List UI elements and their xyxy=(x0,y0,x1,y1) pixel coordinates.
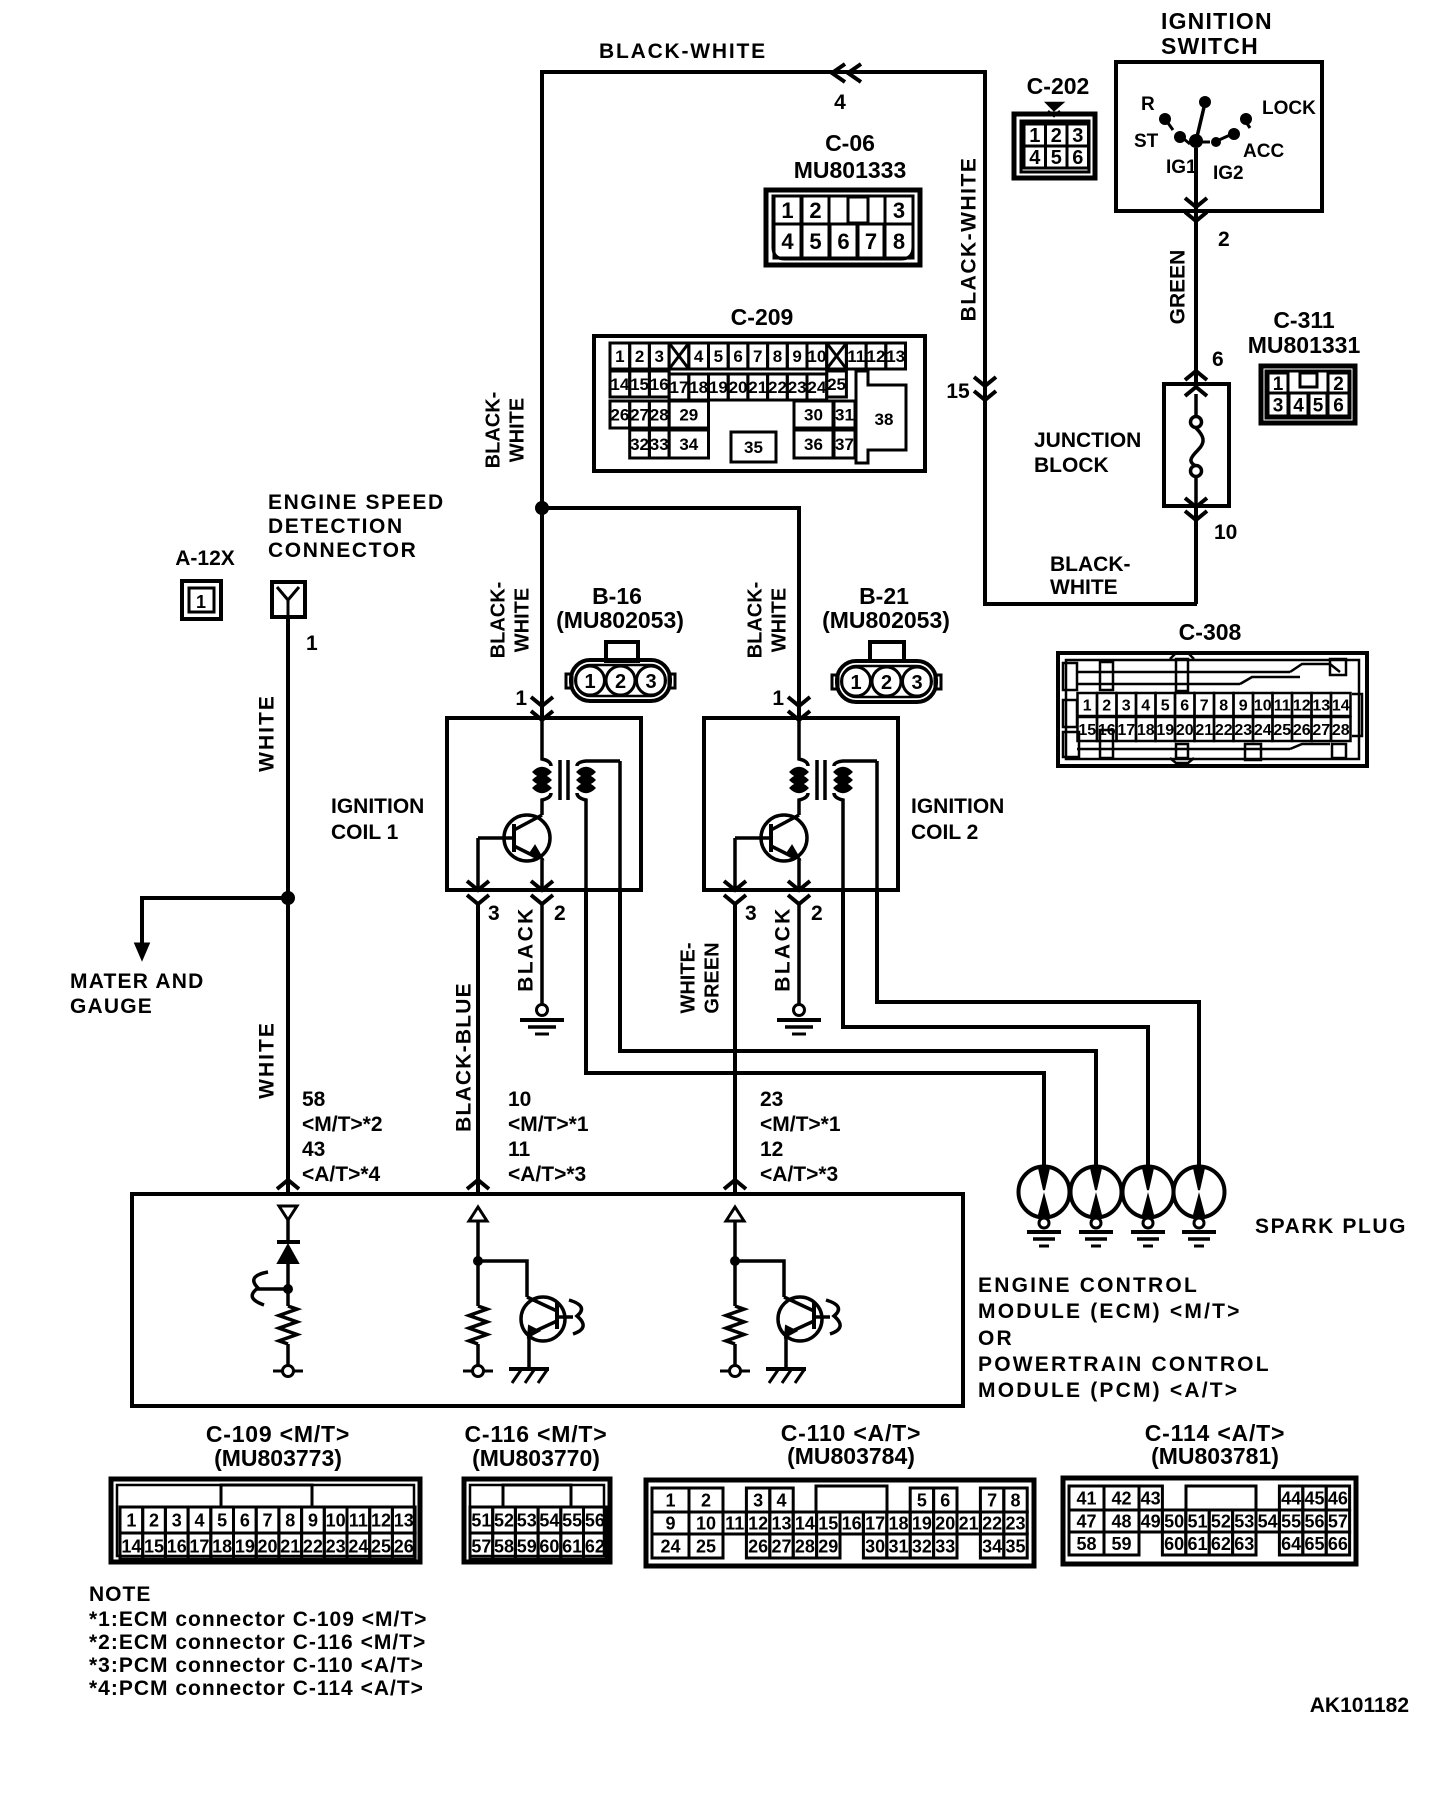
svg-text:38: 38 xyxy=(875,410,894,429)
svg-text:44: 44 xyxy=(1281,1488,1301,1508)
svg-text:MODULE (ECM) <M/T>: MODULE (ECM) <M/T> xyxy=(978,1300,1242,1323)
svg-text:DETECTION: DETECTION xyxy=(268,515,404,538)
svg-text:54: 54 xyxy=(539,1510,559,1530)
svg-text:MU801333: MU801333 xyxy=(794,157,907,183)
connector C-308 lower latch details xyxy=(1077,748,1290,751)
svg-text:26: 26 xyxy=(394,1536,414,1556)
ground for coil pin 2 xyxy=(794,1005,805,1016)
svg-text:4: 4 xyxy=(834,91,846,114)
svg-text:14: 14 xyxy=(610,375,629,394)
svg-text:20: 20 xyxy=(1176,722,1194,739)
svg-text:30: 30 xyxy=(804,406,823,425)
connector C-209 cell 38 xyxy=(856,371,906,463)
ECM driver branch terminal xyxy=(730,1366,741,1377)
svg-text:GREEN: GREEN xyxy=(1167,250,1190,325)
svg-text:(MU803781): (MU803781) xyxy=(1151,1443,1279,1469)
ECM driver branch input triangle xyxy=(726,1207,744,1221)
svg-text:37: 37 xyxy=(835,435,854,454)
svg-text:35: 35 xyxy=(1005,1536,1025,1556)
svg-text:1: 1 xyxy=(615,347,624,366)
svg-text:66: 66 xyxy=(1328,1534,1348,1554)
svg-text:36: 36 xyxy=(804,435,823,454)
wire BLACK-WHITE to ignition coil 2 xyxy=(542,508,799,718)
connector C-308 latch details xyxy=(1077,671,1290,674)
ignition coil box xyxy=(704,718,898,890)
svg-text:60: 60 xyxy=(539,1536,559,1556)
svg-text:<A/T>*3: <A/T>*3 xyxy=(760,1163,838,1186)
svg-text:13: 13 xyxy=(886,347,905,366)
svg-text:22: 22 xyxy=(982,1513,1002,1533)
svg-text:1: 1 xyxy=(584,671,595,693)
svg-text:64: 64 xyxy=(1281,1534,1301,1554)
svg-text:20: 20 xyxy=(935,1513,955,1533)
wire main BLACK-WHITE feed: junction block to ignition coils xyxy=(542,72,1197,604)
wire junction block to horizontal BLACK-WHITE xyxy=(1194,506,1198,604)
svg-text:9: 9 xyxy=(308,1510,318,1530)
svg-text:52: 52 xyxy=(494,1510,514,1530)
svg-text:35: 35 xyxy=(744,438,763,457)
svg-text:3: 3 xyxy=(745,902,757,925)
svg-text:2: 2 xyxy=(615,671,626,693)
svg-text:*1:ECM connector C-109 <M/T>: *1:ECM connector C-109 <M/T> xyxy=(89,1608,427,1631)
svg-text:1: 1 xyxy=(665,1490,675,1510)
svg-text:6: 6 xyxy=(1212,348,1224,371)
svg-text:ST: ST xyxy=(1134,131,1159,152)
svg-text:4: 4 xyxy=(1293,395,1304,416)
svg-text:WHITE: WHITE xyxy=(769,588,791,652)
svg-text:18: 18 xyxy=(888,1513,908,1533)
ECM driver branch terminal xyxy=(473,1366,484,1377)
svg-text:1: 1 xyxy=(850,672,861,694)
svg-text:POWERTRAIN CONTROL: POWERTRAIN CONTROL xyxy=(978,1353,1271,1376)
svg-text:IGNITION: IGNITION xyxy=(331,795,424,818)
svg-text:AK101182: AK101182 xyxy=(1310,1694,1409,1717)
svg-text:(MU803773): (MU803773) xyxy=(214,1445,342,1471)
svg-text:17: 17 xyxy=(865,1513,885,1533)
svg-text:12: 12 xyxy=(1293,697,1311,714)
svg-text:6: 6 xyxy=(1180,697,1189,714)
ignition switch box xyxy=(1116,62,1322,211)
svg-text:4: 4 xyxy=(781,229,794,254)
svg-text:10: 10 xyxy=(1214,521,1237,544)
wire junction dot BLACK-WHITE splits to both coils xyxy=(535,501,549,515)
svg-text:*4:PCM connector C-114 <A/T>: *4:PCM connector C-114 <A/T> xyxy=(89,1677,424,1700)
svg-text:18: 18 xyxy=(212,1536,232,1556)
svg-text:10: 10 xyxy=(807,347,826,366)
transformer core xyxy=(815,760,819,800)
svg-text:21: 21 xyxy=(748,378,767,397)
ECM driver branch resistor xyxy=(469,1306,487,1344)
svg-text:25: 25 xyxy=(1273,722,1291,739)
svg-text:33: 33 xyxy=(650,435,669,454)
svg-text:24: 24 xyxy=(348,1536,368,1556)
svg-text:23: 23 xyxy=(326,1536,346,1556)
svg-text:15: 15 xyxy=(630,375,649,394)
svg-text:56: 56 xyxy=(585,1510,605,1530)
svg-text:A-12X: A-12X xyxy=(175,547,235,570)
ECM driver branch input triangle xyxy=(469,1207,487,1221)
svg-text:C-311: C-311 xyxy=(1273,307,1335,333)
coil exit arrows pins 3 and 2 xyxy=(467,881,489,890)
svg-text:6: 6 xyxy=(940,1490,950,1510)
svg-text:10: 10 xyxy=(1254,697,1272,714)
svg-text:5: 5 xyxy=(1051,147,1062,169)
svg-text:16: 16 xyxy=(650,375,669,394)
svg-text:12: 12 xyxy=(748,1513,768,1533)
svg-text:2: 2 xyxy=(701,1490,711,1510)
svg-text:8: 8 xyxy=(773,347,782,366)
svg-text:6: 6 xyxy=(240,1510,250,1530)
svg-text:61: 61 xyxy=(562,1536,582,1556)
wire arrow into ECM pin 58/43 xyxy=(277,1180,299,1189)
svg-text:34: 34 xyxy=(982,1536,1002,1556)
transformer primary winding xyxy=(799,718,808,766)
svg-text:14: 14 xyxy=(1332,697,1350,714)
svg-text:3: 3 xyxy=(753,1490,763,1510)
svg-text:10: 10 xyxy=(508,1088,531,1111)
svg-text:21: 21 xyxy=(1195,722,1213,739)
svg-text:1: 1 xyxy=(515,687,527,710)
svg-text:58: 58 xyxy=(302,1088,326,1111)
svg-text:WHITE: WHITE xyxy=(1050,576,1118,599)
engine speed detection connector symbol xyxy=(272,582,305,617)
svg-text:1: 1 xyxy=(126,1510,136,1530)
svg-text:1: 1 xyxy=(1029,125,1040,147)
svg-text:25: 25 xyxy=(827,375,846,394)
svg-text:IG1: IG1 xyxy=(1166,157,1197,178)
svg-text:2: 2 xyxy=(149,1510,159,1530)
ECM driver ground xyxy=(509,1367,549,1371)
svg-text:11: 11 xyxy=(847,347,865,366)
svg-text:16: 16 xyxy=(842,1513,862,1533)
svg-text:50: 50 xyxy=(1164,1511,1184,1531)
svg-text:32: 32 xyxy=(630,435,649,454)
svg-text:27: 27 xyxy=(630,406,649,425)
svg-text:5: 5 xyxy=(1313,395,1324,416)
wire base to pin 3 xyxy=(478,836,514,840)
power transistor in coil xyxy=(504,815,550,861)
svg-text:18: 18 xyxy=(1137,722,1155,739)
coil exit arrows pins 3 and 2 xyxy=(724,881,746,890)
wire arrow down pin 15 on vertical feed xyxy=(974,377,996,386)
svg-text:*3:PCM connector C-110 <A/T>: *3:PCM connector C-110 <A/T> xyxy=(89,1654,424,1677)
svg-text:1: 1 xyxy=(781,198,793,223)
svg-text:BLACK-: BLACK- xyxy=(745,582,767,659)
wire coil1 secondary B to spark plug 1 xyxy=(586,890,1044,1166)
ECM driver transistor base squiggle xyxy=(814,1315,830,1319)
svg-text:NOTE: NOTE xyxy=(89,1583,151,1606)
svg-text:19: 19 xyxy=(912,1513,932,1533)
svg-text:47: 47 xyxy=(1076,1511,1096,1531)
svg-text:IG2: IG2 xyxy=(1213,163,1244,184)
svg-text:7: 7 xyxy=(263,1510,273,1530)
svg-text:19: 19 xyxy=(235,1536,255,1556)
svg-text:23: 23 xyxy=(1005,1513,1025,1533)
wire coil1 secondary A to spark plug 2 xyxy=(620,890,1096,1166)
svg-text:24: 24 xyxy=(1254,722,1272,739)
svg-text:15: 15 xyxy=(946,380,970,403)
ECM driver transistor base squiggle xyxy=(557,1315,573,1319)
svg-text:8: 8 xyxy=(893,229,905,254)
svg-text:3: 3 xyxy=(893,198,905,223)
svg-text:OR: OR xyxy=(978,1327,1014,1350)
svg-text:26: 26 xyxy=(610,406,629,425)
svg-text:13: 13 xyxy=(394,1510,414,1530)
svg-text:26: 26 xyxy=(1293,722,1311,739)
svg-text:9: 9 xyxy=(1239,697,1248,714)
svg-text:4: 4 xyxy=(1029,147,1041,169)
svg-text:2: 2 xyxy=(1102,697,1111,714)
svg-text:C-109 <M/T>: C-109 <M/T> xyxy=(206,1421,350,1447)
svg-text:19: 19 xyxy=(1156,722,1174,739)
svg-text:30: 30 xyxy=(865,1536,885,1556)
svg-text:31: 31 xyxy=(835,406,854,425)
svg-text:1: 1 xyxy=(1083,697,1092,714)
svg-text:<A/T>*4: <A/T>*4 xyxy=(302,1163,381,1186)
svg-text:7: 7 xyxy=(865,229,877,254)
svg-text:29: 29 xyxy=(679,406,698,425)
wire branch to meter and gauge xyxy=(142,898,288,944)
svg-text:WHITE-: WHITE- xyxy=(678,942,700,1013)
ECM driver transistor xyxy=(735,1261,784,1297)
svg-text:ENGINE CONTROL: ENGINE CONTROL xyxy=(978,1274,1199,1297)
ignition switch rotary contacts xyxy=(1189,134,1203,148)
svg-text:33: 33 xyxy=(935,1536,955,1556)
wire pin2 to ground xyxy=(540,904,544,1005)
svg-text:21: 21 xyxy=(959,1513,979,1533)
svg-text:4: 4 xyxy=(1141,697,1150,714)
wire base to pin 3 xyxy=(735,836,771,840)
svg-text:32: 32 xyxy=(912,1536,932,1556)
svg-text:65: 65 xyxy=(1304,1534,1324,1554)
svg-text:43: 43 xyxy=(1141,1488,1161,1508)
svg-text:57: 57 xyxy=(471,1536,491,1556)
svg-text:C-116 <M/T>: C-116 <M/T> xyxy=(464,1421,607,1447)
svg-text:4: 4 xyxy=(194,1510,204,1530)
svg-text:7: 7 xyxy=(1200,697,1209,714)
svg-text:21: 21 xyxy=(280,1536,300,1556)
svg-text:WHITE: WHITE xyxy=(256,694,279,772)
svg-text:15: 15 xyxy=(144,1536,164,1556)
svg-text:5: 5 xyxy=(714,347,723,366)
svg-text:3: 3 xyxy=(1072,125,1083,147)
svg-text:2: 2 xyxy=(635,347,644,366)
svg-text:20: 20 xyxy=(729,378,748,397)
svg-text:CONNECTOR: CONNECTOR xyxy=(268,539,417,562)
svg-text:49: 49 xyxy=(1141,1511,1161,1531)
svg-text:61: 61 xyxy=(1187,1534,1207,1554)
svg-text:9: 9 xyxy=(665,1513,675,1533)
svg-text:22: 22 xyxy=(768,378,787,397)
svg-text:3: 3 xyxy=(1273,395,1284,416)
svg-text:5: 5 xyxy=(217,1510,227,1530)
svg-text:WHITE: WHITE xyxy=(256,1021,279,1099)
svg-text:31: 31 xyxy=(888,1536,908,1556)
svg-text:19: 19 xyxy=(709,378,728,397)
svg-text:11: 11 xyxy=(725,1513,744,1533)
svg-text:60: 60 xyxy=(1164,1534,1184,1554)
wire coil2 secondary B to spark plug 3 xyxy=(843,890,1148,1166)
svg-text:26: 26 xyxy=(748,1536,768,1556)
svg-text:5: 5 xyxy=(1161,697,1170,714)
svg-text:ACC: ACC xyxy=(1243,141,1284,162)
svg-text:MATER AND: MATER AND xyxy=(70,970,204,993)
transformer secondary winding xyxy=(577,761,620,766)
svg-text:53: 53 xyxy=(1234,1511,1254,1531)
wire arrow left on top feed xyxy=(832,64,845,82)
wire coil2 secondary A to spark plug 4 xyxy=(877,890,1199,1166)
ECM driver transistor xyxy=(478,1261,527,1297)
wire pin2 to ground xyxy=(797,904,801,1005)
svg-text:9: 9 xyxy=(792,347,801,366)
svg-text:15: 15 xyxy=(1078,722,1096,739)
svg-text:COIL 2: COIL 2 xyxy=(911,821,978,844)
svg-text:BLACK-BLUE: BLACK-BLUE xyxy=(453,982,476,1132)
svg-text:1: 1 xyxy=(306,632,318,655)
svg-text:12: 12 xyxy=(371,1510,391,1530)
svg-text:SWITCH: SWITCH xyxy=(1161,33,1259,59)
svg-text:BLACK-WHITE: BLACK-WHITE xyxy=(599,40,767,63)
svg-text:25: 25 xyxy=(696,1536,716,1556)
svg-text:3: 3 xyxy=(488,902,500,925)
svg-text:WHITE: WHITE xyxy=(507,398,529,462)
svg-text:62: 62 xyxy=(585,1536,605,1556)
svg-text:34: 34 xyxy=(679,435,698,454)
svg-text:MODULE (PCM) <A/T>: MODULE (PCM) <A/T> xyxy=(978,1379,1239,1402)
svg-text:10: 10 xyxy=(696,1513,716,1533)
svg-text:27: 27 xyxy=(771,1536,791,1556)
junction block box xyxy=(1164,384,1229,506)
connector C-308 pin rows xyxy=(1078,693,1098,716)
svg-text:3: 3 xyxy=(172,1510,182,1530)
svg-text:12: 12 xyxy=(866,347,885,366)
ECM diode branch resistor xyxy=(279,1306,297,1344)
svg-text:57: 57 xyxy=(1328,1511,1348,1531)
svg-text:JUNCTION: JUNCTION xyxy=(1034,429,1141,452)
svg-text:7: 7 xyxy=(987,1490,997,1510)
svg-text:23: 23 xyxy=(788,378,807,397)
svg-text:24: 24 xyxy=(660,1536,680,1556)
ground for coil pin 2 xyxy=(537,1005,548,1016)
svg-text:53: 53 xyxy=(517,1510,537,1530)
svg-text:2: 2 xyxy=(811,902,823,925)
svg-text:20: 20 xyxy=(258,1536,278,1556)
svg-text:24: 24 xyxy=(807,378,826,397)
svg-text:MU801331: MU801331 xyxy=(1248,332,1361,358)
svg-text:3: 3 xyxy=(655,347,664,366)
svg-text:6: 6 xyxy=(733,347,742,366)
svg-text:23: 23 xyxy=(1234,722,1252,739)
svg-text:46: 46 xyxy=(1328,1488,1348,1508)
svg-text:2: 2 xyxy=(554,902,566,925)
svg-text:6: 6 xyxy=(1072,147,1083,169)
svg-text:2: 2 xyxy=(1218,228,1230,251)
svg-text:3: 3 xyxy=(645,671,656,693)
svg-text:56: 56 xyxy=(1304,1511,1324,1531)
svg-text:29: 29 xyxy=(818,1536,838,1556)
svg-text:<M/T>*2: <M/T>*2 xyxy=(302,1113,383,1136)
svg-text:17: 17 xyxy=(1117,722,1135,739)
svg-text:5: 5 xyxy=(809,229,821,254)
svg-text:22: 22 xyxy=(1215,722,1233,739)
svg-text:59: 59 xyxy=(1111,1534,1131,1554)
svg-text:59: 59 xyxy=(517,1536,537,1556)
svg-text:4: 4 xyxy=(776,1490,786,1510)
svg-text:WHITE: WHITE xyxy=(512,588,534,652)
svg-text:GREEN: GREEN xyxy=(702,942,724,1013)
svg-text:<M/T>*1: <M/T>*1 xyxy=(760,1113,841,1136)
wire WHITE-GREEN coil2 base to ECM xyxy=(733,904,737,1194)
svg-text:23: 23 xyxy=(760,1088,783,1111)
svg-text:62: 62 xyxy=(1211,1534,1231,1554)
svg-text:14: 14 xyxy=(121,1536,141,1556)
svg-text:8: 8 xyxy=(285,1510,295,1530)
svg-text:COIL 1: COIL 1 xyxy=(331,821,399,844)
ECM driver branch resistor xyxy=(726,1306,744,1344)
junction block exit arrows xyxy=(1185,498,1207,507)
svg-text:42: 42 xyxy=(1111,1488,1131,1508)
svg-text:58: 58 xyxy=(1076,1534,1096,1554)
spark plug xyxy=(1019,1167,1070,1218)
svg-text:(MU803784): (MU803784) xyxy=(787,1443,915,1469)
svg-text:54: 54 xyxy=(1258,1511,1278,1531)
wire BLACK-WHITE down to ignition coil 1 xyxy=(540,508,544,718)
wire secondary terminal A xyxy=(618,761,622,890)
svg-text:(MU802053): (MU802053) xyxy=(556,607,684,633)
svg-text:4: 4 xyxy=(694,347,704,366)
svg-text:C-202: C-202 xyxy=(1027,73,1090,99)
svg-text:13: 13 xyxy=(771,1513,791,1533)
svg-text:8: 8 xyxy=(1010,1490,1020,1510)
svg-text:11: 11 xyxy=(1274,697,1291,714)
svg-text:1: 1 xyxy=(196,592,206,612)
transformer primary winding xyxy=(542,718,551,766)
svg-text:C-209: C-209 xyxy=(731,304,794,330)
svg-text:45: 45 xyxy=(1304,1488,1324,1508)
svg-text:1: 1 xyxy=(772,687,784,710)
engine control module box xyxy=(132,1194,963,1406)
svg-text:8: 8 xyxy=(1219,697,1228,714)
wire ignition switch IG1 down to junction block xyxy=(1194,148,1198,384)
svg-text:11: 11 xyxy=(508,1138,531,1161)
svg-text:ENGINE SPEED: ENGINE SPEED xyxy=(268,491,445,514)
spark plug xyxy=(1174,1167,1225,1218)
svg-text:6: 6 xyxy=(837,229,849,254)
ECM diode branch terminal xyxy=(283,1366,294,1377)
svg-text:52: 52 xyxy=(1211,1511,1231,1531)
svg-text:BLACK-: BLACK- xyxy=(483,392,505,469)
transformer core xyxy=(558,760,562,800)
svg-text:13: 13 xyxy=(1312,697,1330,714)
ECM driver ground xyxy=(766,1367,806,1371)
svg-text:IGNITION: IGNITION xyxy=(911,795,1004,818)
svg-text:2: 2 xyxy=(881,672,892,694)
svg-text:6: 6 xyxy=(1333,395,1344,416)
svg-text:14: 14 xyxy=(795,1513,815,1533)
svg-text:LOCK: LOCK xyxy=(1262,98,1316,119)
svg-text:B-21: B-21 xyxy=(859,583,909,609)
svg-text:55: 55 xyxy=(562,1510,582,1530)
junction block entry arrows xyxy=(1185,371,1207,380)
ignition coil box xyxy=(447,718,641,890)
spark plug xyxy=(1071,1167,1122,1218)
svg-text:28: 28 xyxy=(795,1536,815,1556)
svg-text:51: 51 xyxy=(1187,1511,1207,1531)
svg-text:5: 5 xyxy=(917,1490,927,1510)
svg-text:3: 3 xyxy=(1122,697,1131,714)
svg-text:11: 11 xyxy=(349,1510,368,1530)
svg-text:B-16: B-16 xyxy=(592,583,642,609)
